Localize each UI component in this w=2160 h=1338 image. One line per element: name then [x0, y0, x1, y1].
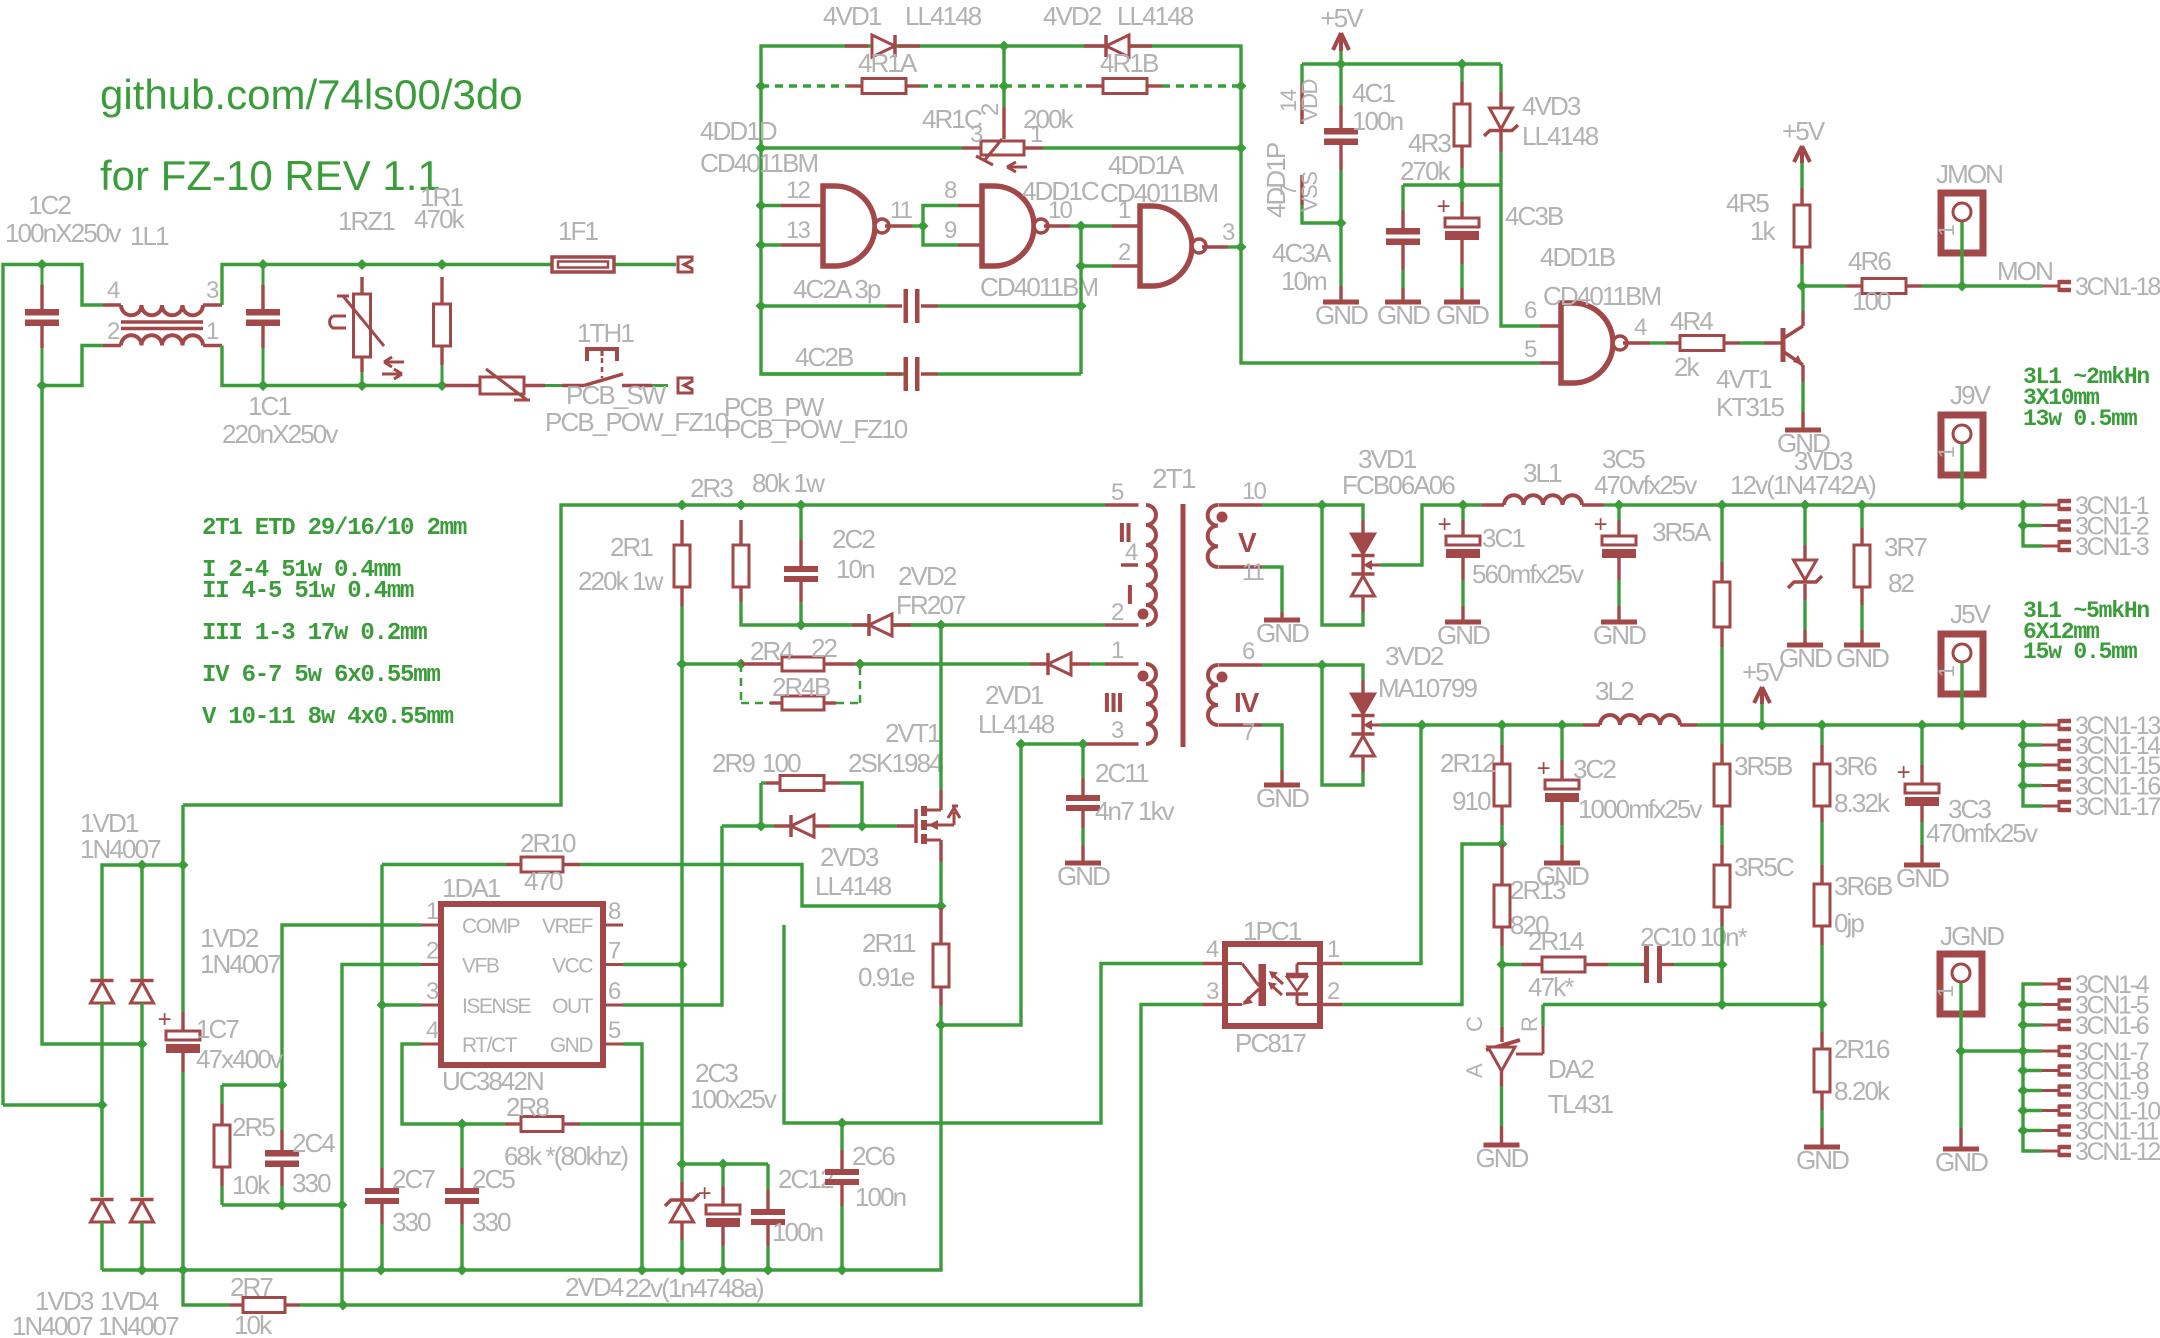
- svg-text:3: 3: [206, 277, 219, 304]
- svg-text:68k *(80khz): 68k *(80khz): [504, 1141, 628, 1171]
- diode 2VD2 FR207: [801, 623, 852, 626]
- svg-text:github.com/74ls00/3do: github.com/74ls00/3do: [100, 71, 523, 118]
- pin 3CN1-8: [2042, 1069, 2059, 1072]
- wire 2R1 bottom long vertical (VCC)): [680, 606, 683, 1164]
- varistor 1RZ1: [357, 259, 368, 270]
- svg-text:+5V: +5V: [1320, 3, 1364, 33]
- wire RT/CT: [402, 1044, 462, 1124]
- resistor 2R8 68k: [462, 1122, 505, 1125]
- wire gate lead: [862, 824, 897, 827]
- wire cathode bus 1VD1/1VD2/1C7: [102, 865, 183, 979]
- svg-text:5: 5: [1111, 479, 1124, 506]
- svg-text:100nX250v: 100nX250v: [5, 218, 121, 248]
- resistor 4R1A: [847, 84, 862, 87]
- ground 3VD3: [1787, 643, 1823, 648]
- svg-text:100: 100: [762, 748, 801, 778]
- junction VFB/2R7: [338, 1300, 349, 1311]
- pin 3CN1-12: [2042, 1150, 2059, 1153]
- svg-text:CD4011BM: CD4011BM: [1100, 178, 1218, 208]
- junction 2R3 top: [736, 500, 747, 511]
- power +5V arrow top: [1333, 33, 1341, 50]
- wire VREF riser done above; wire VCC: [623, 963, 682, 966]
- wire OUT drive riser: [722, 824, 761, 827]
- wire pin1 to +5V riser: [1320, 962, 1342, 965]
- pin 3CN1-13: [2042, 724, 2059, 727]
- svg-text:11: 11: [890, 197, 913, 224]
- svg-text:GND: GND: [1779, 643, 1832, 673]
- junction ref/2C10: [1717, 999, 1728, 1010]
- capacitor 2C4 330: [280, 1085, 283, 1130]
- dual diode 3VD1 FCB06A06: [1322, 505, 1363, 520]
- inductor 3L1: [1482, 503, 1504, 506]
- svg-text:COMP: COMP: [462, 915, 519, 938]
- svg-text:1: 1: [1030, 121, 1043, 148]
- svg-text:3: 3: [1111, 717, 1124, 744]
- svg-text:KT315: KT315: [1716, 392, 1785, 422]
- transistor 4VT1 KT315 (NPN): [1781, 328, 1786, 362]
- wire 2R3 bottom to clamp line: [741, 602, 1105, 625]
- junction dashed: [999, 81, 1010, 92]
- junction 3C3 top: [1917, 720, 1928, 731]
- svg-text:1N4007: 1N4007: [200, 949, 281, 979]
- svg-text:470mfx25v: 470mfx25v: [1926, 818, 2038, 848]
- ground 3C5: [1601, 620, 1637, 625]
- svg-text:12: 12: [786, 177, 810, 204]
- svg-text:2VD1: 2VD1: [985, 680, 1044, 710]
- winding V secondary: [1219, 503, 1263, 506]
- svg-text:LL4148: LL4148: [1522, 121, 1599, 151]
- junction 3VD3 top: [1800, 500, 1811, 511]
- junction drain node: [936, 620, 947, 631]
- svg-text:3: 3: [970, 121, 983, 148]
- wire 2R7 line: [183, 1270, 229, 1305]
- ground 2R16: [1804, 1145, 1840, 1150]
- svg-text:3VD2: 3VD2: [1385, 641, 1444, 671]
- svg-text:5: 5: [1524, 336, 1537, 363]
- svg-text:10m: 10m: [1281, 266, 1326, 296]
- svg-text:TL431: TL431: [1548, 1089, 1614, 1119]
- ground DA2: [1484, 1143, 1520, 1148]
- resistor 2R16 8.20k: [1820, 1005, 1823, 1033]
- capacitor 1C7 47x400v: [181, 805, 184, 865]
- pin 3CN1-5: [2042, 1003, 2059, 1006]
- wire OUT to gate network: [623, 826, 722, 1005]
- wire COMP to 2R5/2C4: [282, 925, 421, 1085]
- resistor 2R4B (dashed alternate): [740, 664, 743, 703]
- wire choke right bottom line: [222, 346, 445, 386]
- svg-text:3R5C: 3R5C: [1734, 852, 1794, 882]
- svg-text:100: 100: [1852, 286, 1891, 316]
- ground winding V: [1264, 618, 1300, 623]
- svg-text:6: 6: [1524, 297, 1537, 324]
- svg-text:220nX250v: 220nX250v: [222, 419, 338, 449]
- wire pin4 VREF line: [1203, 962, 1225, 965]
- svg-text:4: 4: [107, 277, 120, 304]
- svg-text:VSS: VSS: [1297, 172, 1322, 212]
- svg-text:1DA1: 1DA1: [442, 873, 501, 903]
- svg-text:4R1A: 4R1A: [858, 48, 918, 78]
- svg-text:3CN1-3: 3CN1-3: [2075, 533, 2149, 561]
- ground 3C1: [1445, 620, 1481, 625]
- wire choke right to top line: [222, 265, 676, 306]
- svg-text:220k 1w: 220k 1w: [578, 566, 664, 596]
- capacitor 3C1 560mfx25v: [1461, 505, 1464, 520]
- svg-text:2C11: 2C11: [1095, 758, 1149, 788]
- svg-text:4DD1A: 4DD1A: [1108, 150, 1185, 180]
- junction 3R7 top: [1857, 500, 1868, 511]
- svg-text:4VD3: 4VD3: [1522, 91, 1581, 121]
- svg-text:LL4148: LL4148: [905, 1, 982, 31]
- svg-text:3CN1-6: 3CN1-6: [2075, 1012, 2149, 1040]
- ground 4C1: [1323, 300, 1359, 305]
- svg-text:3CN1-17: 3CN1-17: [2075, 793, 2160, 821]
- svg-text:13w 0.5mm: 13w 0.5mm: [2023, 406, 2137, 432]
- svg-text:4DD1P: 4DD1P: [1261, 143, 1291, 218]
- svg-text:1C7: 1C7: [196, 1014, 239, 1044]
- svg-text:12v(1N4742A): 12v(1N4742A): [1730, 470, 1876, 500]
- svg-text:9: 9: [944, 217, 957, 244]
- pin 3CN1-1: [2042, 504, 2059, 507]
- svg-text:VCC: VCC: [552, 955, 593, 978]
- junction VCC: [677, 959, 688, 970]
- connector JGND: [1940, 954, 1982, 1014]
- svg-text:VDD: VDD: [1297, 79, 1322, 122]
- svg-text:10k: 10k: [234, 1310, 273, 1338]
- wire 2R4 to 2VD1: [860, 662, 1030, 665]
- pin 3CN1-18: [2042, 285, 2059, 288]
- junction 2C2 bottom: [796, 620, 807, 631]
- connector J5V: [1941, 634, 1983, 694]
- resistor 4R3 270k: [1460, 64, 1463, 82]
- resistor 2R11 0.91e: [939, 908, 942, 944]
- svg-text:A: A: [1462, 1063, 1487, 1078]
- winding II/I primary: [1105, 503, 1139, 506]
- junction 3R5A top: [1717, 500, 1728, 511]
- capacitor 2C12 100n: [766, 1164, 769, 1190]
- svg-text:1: 1: [1934, 446, 1959, 458]
- junction source/sense: [936, 901, 947, 912]
- svg-text:2: 2: [1111, 599, 1124, 626]
- svg-text:1: 1: [206, 318, 219, 345]
- svg-text:1k: 1k: [1750, 216, 1777, 246]
- svg-text:330: 330: [472, 1207, 511, 1237]
- svg-text:560mfx25v: 560mfx25v: [1472, 559, 1584, 589]
- IC power pins 4DD1P: [1300, 64, 1303, 84]
- svg-text:3C2: 3C2: [1573, 754, 1616, 784]
- svg-text:LL4148: LL4148: [1117, 1, 1194, 31]
- junction 2VD3 left: [756, 821, 767, 832]
- svg-text:PCB_POW_FZ10: PCB_POW_FZ10: [724, 414, 908, 444]
- pin 3CN1-2: [2042, 524, 2059, 527]
- svg-text:330: 330: [292, 1168, 331, 1198]
- svg-text:2: 2: [1327, 978, 1340, 1005]
- junction J9V: [1957, 500, 1968, 511]
- svg-text:2C7: 2C7: [392, 1164, 435, 1194]
- svg-text:3L1: 3L1: [1523, 458, 1562, 488]
- capacitor 3C5 470vfx25v: [1617, 505, 1620, 520]
- svg-text:III 1-3 17w 0.2mm: III 1-3 17w 0.2mm: [202, 620, 427, 647]
- svg-text:0jp: 0jp: [1834, 908, 1864, 938]
- svg-text:1C1: 1C1: [248, 391, 291, 421]
- svg-text:+: +: [1537, 755, 1550, 782]
- svg-text:J5V: J5V: [1950, 599, 1992, 629]
- svg-text:3CN1-12: 3CN1-12: [2075, 1138, 2160, 1166]
- svg-text:GND: GND: [1593, 620, 1646, 650]
- svg-text:MA10799: MA10799: [1378, 673, 1477, 703]
- svg-text:J9V: J9V: [1950, 380, 1992, 410]
- svg-text:1: 1: [426, 898, 439, 925]
- junction ref node: [1497, 959, 1508, 970]
- pin 3CN1-3: [2042, 545, 2059, 548]
- junction pin3/2C11: [1078, 739, 1089, 750]
- svg-text:470vfx25v: 470vfx25v: [1594, 470, 1697, 500]
- svg-text:470k: 470k: [414, 204, 466, 234]
- capacitor 4C3A 10m: [1401, 185, 1404, 210]
- svg-text:4: 4: [1206, 936, 1219, 963]
- resistor 2R4 22: [741, 662, 782, 665]
- svg-text:1N4007: 1N4007: [12, 1311, 93, 1338]
- junction 2C2 top: [796, 500, 807, 511]
- ground JGND: [1943, 1147, 1979, 1152]
- svg-text:3CN1-18: 3CN1-18: [2075, 273, 2160, 301]
- capacitor 4C2B: [886, 372, 902, 375]
- junction 3C1 node: [1458, 500, 1469, 511]
- svg-text:OUT: OUT: [552, 995, 594, 1018]
- svg-text:ISENSE: ISENSE: [462, 995, 532, 1018]
- junction osc top: [999, 41, 1010, 52]
- svg-text:3R6B: 3R6B: [1834, 871, 1892, 901]
- wire +5V rail: [1422, 723, 1583, 726]
- junction bank GND: [2018, 1046, 2029, 1057]
- wire pin11 to gnd: [1262, 567, 1282, 612]
- svg-text:6: 6: [608, 978, 621, 1005]
- svg-text:10: 10: [1242, 478, 1266, 505]
- ground winding IV: [1264, 783, 1300, 788]
- resistor 2R12 910: [1500, 725, 1503, 745]
- capacitor 2C7 330: [380, 1168, 383, 1188]
- svg-text:8: 8: [944, 177, 957, 204]
- svg-text:4DD1D: 4DD1D: [700, 116, 777, 146]
- pin 3CN1-10: [2042, 1109, 2059, 1112]
- dual diode 3VD2 MA10799: [1322, 665, 1363, 680]
- svg-text:4VD1: 4VD1: [823, 1, 882, 31]
- svg-text:47k*: 47k*: [1528, 972, 1574, 1002]
- wire source to sense node: [939, 840, 942, 862]
- ground 3C3: [1904, 863, 1940, 868]
- zener diode 4VD3 LL4148: [1499, 64, 1502, 92]
- svg-text:R: R: [1517, 1017, 1542, 1032]
- nand gate 4DD1D: [756, 200, 767, 211]
- fuse 1F1: [552, 257, 614, 272]
- resistor 1R1: [437, 259, 448, 270]
- svg-text:4R5: 4R5: [1726, 188, 1769, 218]
- svg-text:8.32k: 8.32k: [1834, 788, 1891, 818]
- capacitor 2C3 (polarized): [721, 1164, 724, 1186]
- svg-text:IV: IV: [1234, 687, 1260, 718]
- junction 3CN1-13 bank: [2018, 720, 2029, 731]
- shunt regulator DA2 TL431: [1500, 965, 1503, 1028]
- svg-text:4: 4: [1125, 539, 1138, 566]
- svg-text:4C3B: 4C3B: [1505, 201, 1563, 231]
- resistor 2R14 47k*: [1502, 963, 1522, 966]
- winding IV secondary: [1219, 663, 1263, 666]
- wire 4C3B node to gate pin6: [1501, 185, 1540, 326]
- svg-text:for FZ-10 REV 1.1: for FZ-10 REV 1.1: [100, 152, 441, 199]
- pin 3CN1-6: [2042, 1024, 2059, 1027]
- svg-text:GND: GND: [1796, 1145, 1849, 1175]
- junction 2R12 top: [1497, 720, 1508, 731]
- svg-text:2C5: 2C5: [472, 1164, 515, 1194]
- svg-text:80k 1w: 80k 1w: [752, 468, 825, 498]
- diode 2VD3 LL4148: [761, 824, 774, 827]
- svg-text:2R9: 2R9: [712, 748, 755, 778]
- svg-text:2VD3: 2VD3: [820, 842, 879, 872]
- svg-text:1F1: 1F1: [558, 216, 599, 246]
- junction JMON: [1957, 281, 1968, 292]
- wire ISENSE: [382, 1003, 421, 1006]
- capacitor 4C1 100n: [1339, 64, 1342, 105]
- svg-text:2SK1984: 2SK1984: [848, 748, 943, 778]
- wire 2R9 left down: [759, 783, 762, 826]
- wire vss node line: [1403, 183, 1501, 186]
- diode 1VD3 1N4007: [100, 1105, 103, 1197]
- svg-text:4R1B: 4R1B: [1100, 48, 1158, 78]
- svg-text:4n7 1kv: 4n7 1kv: [1095, 796, 1175, 826]
- capacitor 1C1: [258, 259, 269, 270]
- ground 3R7: [1844, 643, 1880, 648]
- svg-text:+: +: [1594, 511, 1607, 538]
- svg-text:GND: GND: [1256, 783, 1309, 813]
- wire pot wiper feed: [1002, 46, 1005, 86]
- junction J5V: [1957, 720, 1968, 731]
- capacitor 1C2: [41, 265, 44, 286]
- pin 3CN1-11: [2042, 1129, 2059, 1132]
- terminal AC neutral: [678, 378, 692, 393]
- svg-text:2T1: 2T1: [1152, 463, 1196, 494]
- wire MON line: [1802, 284, 1846, 287]
- svg-text:4R3: 4R3: [1408, 128, 1451, 158]
- svg-text:GND: GND: [1256, 618, 1309, 648]
- resistor 2R3 80k 1w: [739, 520, 742, 545]
- svg-text:3R5A: 3R5A: [1652, 517, 1712, 547]
- svg-text:GND: GND: [1315, 300, 1368, 330]
- svg-text:+5V: +5V: [1782, 116, 1826, 146]
- svg-text:2R5: 2R5: [232, 1112, 275, 1142]
- wire drain: [939, 625, 942, 790]
- svg-text:2C2: 2C2: [832, 524, 875, 554]
- svg-text:+: +: [1897, 759, 1910, 786]
- junction 2C10 out: [1717, 959, 1728, 970]
- svg-text:VREF: VREF: [542, 915, 593, 938]
- svg-text:JMON: JMON: [1936, 159, 2002, 189]
- connector J9V: [1941, 415, 1983, 475]
- svg-text:4VD2: 4VD2: [1043, 1, 1102, 31]
- svg-text:GND: GND: [1896, 863, 1949, 893]
- svg-text:+: +: [1437, 193, 1450, 220]
- capacitor 2C5 330: [460, 1124, 463, 1168]
- svg-text:2: 2: [107, 318, 120, 345]
- wire VFB: [342, 965, 421, 1306]
- svg-text:IV 6-7 5w 6x0.55mm: IV 6-7 5w 6x0.55mm: [202, 662, 440, 689]
- svg-text:2R4: 2R4: [750, 636, 793, 666]
- svg-text:+: +: [158, 1006, 171, 1033]
- zener 2VD4 22v: [671, 1202, 694, 1222]
- junction 2R8/2C5: [457, 1119, 468, 1130]
- transistor 2VT1 2SK1984 (MOSFET): [914, 809, 918, 843]
- svg-text:3C1: 3C1: [1482, 523, 1525, 553]
- junction 3VD1 input: [1317, 500, 1328, 511]
- resistor 2R7 10k: [229, 1303, 243, 1306]
- svg-text:11: 11: [1242, 559, 1265, 586]
- resistor 2R1 220k 1w: [680, 520, 683, 545]
- wire pin10 line: [1262, 503, 1322, 506]
- svg-text:2R1: 2R1: [610, 532, 653, 562]
- switch PCB_SW: [562, 384, 584, 387]
- svg-text:10k: 10k: [232, 1170, 271, 1200]
- svg-text:GND: GND: [1475, 1143, 1528, 1173]
- wire LED cathode to divider tap: [1342, 844, 1502, 1005]
- svg-text:PCB_POW_FZ10: PCB_POW_FZ10: [545, 407, 729, 437]
- svg-text:2C4: 2C4: [292, 1128, 335, 1158]
- wire osc left bus: [761, 46, 1540, 374]
- svg-text:8: 8: [608, 898, 621, 925]
- pin 3CN1-17: [2042, 805, 2059, 808]
- ground 3C2: [1544, 861, 1580, 866]
- resistor 2R10 470: [506, 863, 521, 866]
- svg-text:1: 1: [1934, 224, 1959, 236]
- svg-text:3: 3: [1206, 978, 1219, 1005]
- svg-text:CD4011BM: CD4011BM: [700, 148, 818, 178]
- ground 2C11: [1065, 861, 1101, 866]
- svg-text:13: 13: [786, 217, 810, 244]
- svg-text:CD4011BM: CD4011BM: [1543, 281, 1661, 311]
- wire pin7 to gnd: [1262, 725, 1282, 770]
- svg-text:3R5B: 3R5B: [1734, 751, 1792, 781]
- svg-text:8.20k: 8.20k: [1834, 1076, 1891, 1106]
- svg-text:2R12: 2R12: [1440, 748, 1496, 778]
- capacitor 2C2 10n: [799, 505, 802, 540]
- wire main GND bus: [102, 1025, 941, 1270]
- svg-text:100x25v: 100x25v: [690, 1084, 777, 1114]
- resistor 4R5 1k: [1800, 163, 1803, 188]
- wire AC line top-left vertical: [3, 265, 103, 1106]
- wire gate1-gate2: [912, 224, 923, 227]
- svg-text:3: 3: [1222, 219, 1235, 246]
- resistor 2R5 10k: [220, 1085, 223, 1104]
- svg-text:1N4007: 1N4007: [98, 1311, 179, 1338]
- junction 1C2 top: [37, 259, 48, 270]
- thermistor 1TH1: [445, 384, 480, 387]
- svg-text:100n: 100n: [855, 1182, 906, 1212]
- capacitor 4C3B (polarized): [1460, 185, 1463, 202]
- svg-text:2C6: 2C6: [852, 1141, 895, 1171]
- wire ISENSE path via 2R10: [382, 863, 506, 866]
- svg-text:2R7: 2R7: [230, 1272, 273, 1302]
- ground 4VT1 emitter: [1785, 428, 1821, 433]
- junction opto feed: [1417, 720, 1428, 731]
- wire 4DD1D input line: [756, 143, 767, 154]
- svg-text:910: 910: [1452, 786, 1491, 816]
- svg-text:100n: 100n: [772, 1217, 823, 1247]
- svg-text:5: 5: [608, 1017, 621, 1044]
- svg-text:82: 82: [1888, 568, 1915, 598]
- wire dashed timing line: [756, 81, 767, 92]
- svg-text:3R6: 3R6: [1834, 751, 1877, 781]
- nand gate 4DD1C: [958, 204, 982, 207]
- junction 1VD2/1VD4 mid: [137, 1039, 148, 1050]
- svg-text:2VT1: 2VT1: [885, 718, 941, 748]
- wire gate3 out to bus: [1228, 245, 1241, 248]
